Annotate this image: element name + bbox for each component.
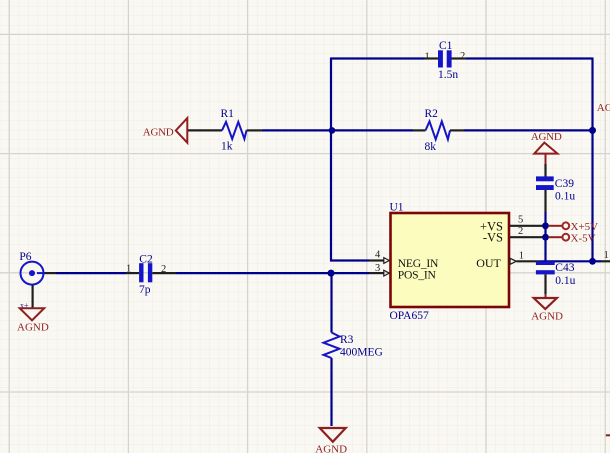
svg-text:7p: 7p	[139, 284, 151, 296]
svg-text:AGND: AGND	[143, 126, 174, 138]
svg-text:2: 2	[460, 51, 465, 62]
svg-text:OPA657: OPA657	[390, 310, 429, 322]
svg-text:1: 1	[425, 52, 430, 63]
svg-text:U1: U1	[390, 202, 404, 214]
svg-text:AGND: AGND	[531, 311, 563, 323]
svg-text:C2: C2	[139, 254, 153, 266]
svg-text:AGND: AGND	[315, 444, 347, 453]
svg-text:8k: 8k	[425, 141, 437, 153]
svg-text:P6: P6	[19, 251, 31, 263]
svg-text:C43: C43	[555, 262, 574, 274]
svg-text:-VS: -VS	[483, 231, 503, 245]
svg-text:R1: R1	[221, 108, 235, 120]
svg-text:R2: R2	[425, 108, 439, 120]
svg-text:2: 2	[518, 226, 523, 237]
svg-text:OUT: OUT	[476, 256, 501, 270]
svg-text:400MEG: 400MEG	[340, 347, 383, 359]
svg-text:C1: C1	[439, 40, 453, 52]
svg-text:1.5n: 1.5n	[438, 69, 458, 81]
svg-text:0.1u: 0.1u	[555, 190, 575, 202]
svg-text:AGND: AGND	[597, 102, 610, 114]
svg-text:X-5V: X-5V	[571, 232, 596, 244]
svg-text:3: 3	[375, 263, 380, 274]
svg-text:0.1u: 0.1u	[555, 275, 575, 287]
svg-text:1: 1	[519, 251, 524, 262]
svg-text:AGND: AGND	[531, 131, 562, 143]
svg-text:R3: R3	[340, 334, 354, 346]
svg-text:1: 1	[604, 250, 609, 261]
svg-text:C39: C39	[555, 178, 574, 190]
svg-text:1: 1	[126, 264, 131, 275]
svg-text:1k: 1k	[221, 141, 233, 153]
svg-text:5: 5	[518, 215, 523, 226]
svg-text:AGND: AGND	[17, 321, 49, 333]
svg-text:POS_IN: POS_IN	[398, 268, 437, 281]
svg-text:4: 4	[375, 250, 381, 261]
svg-text:X+5V: X+5V	[571, 221, 599, 233]
